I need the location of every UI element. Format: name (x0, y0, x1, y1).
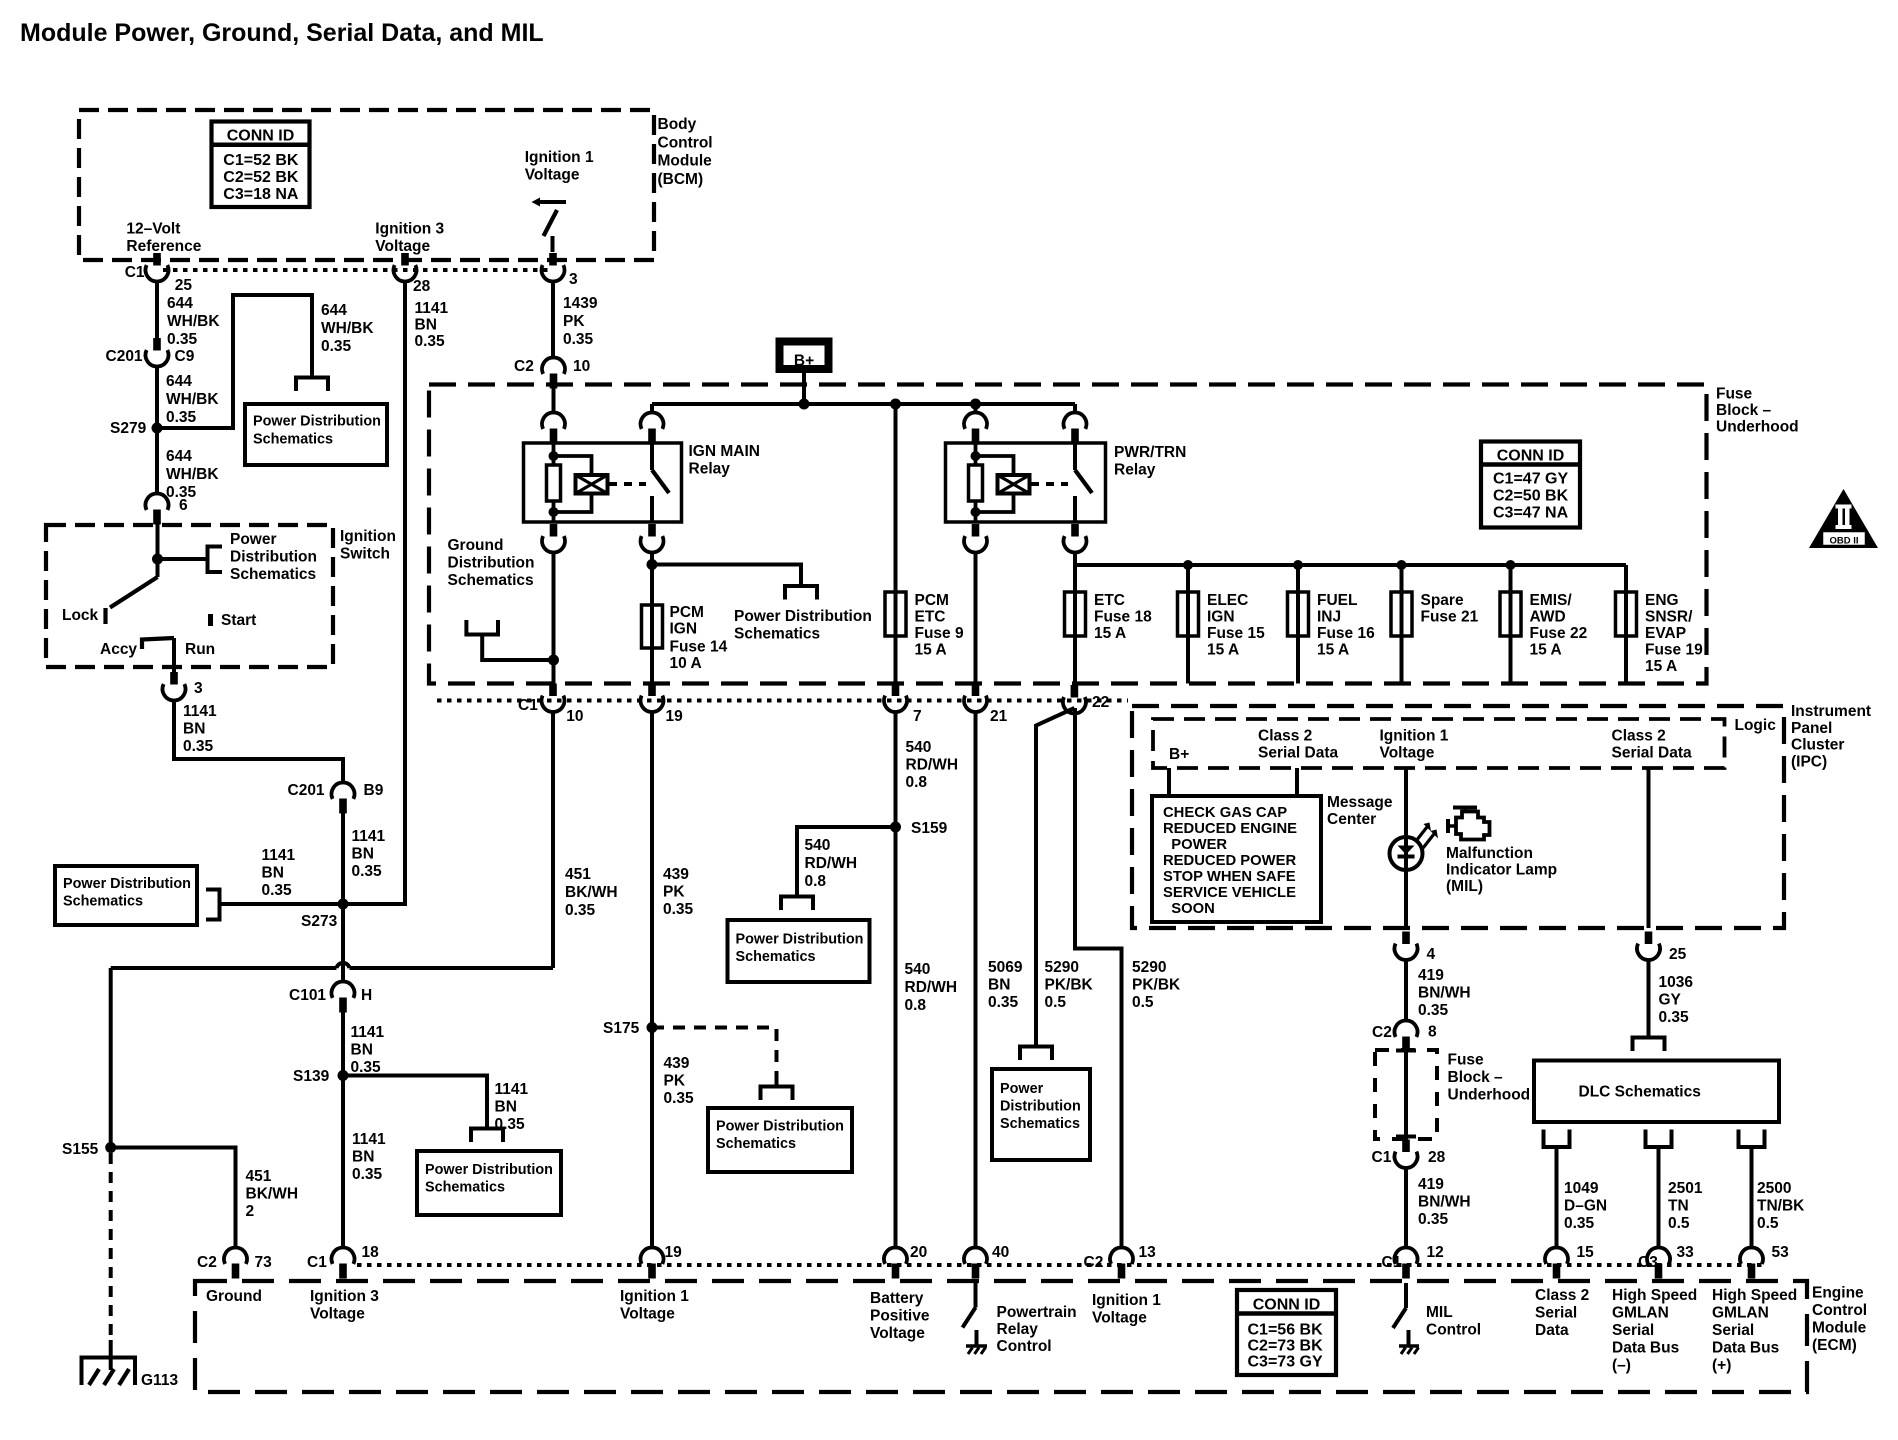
svg-text:Relay: Relay (997, 1321, 1039, 1338)
svg-text:Fuse 14: Fuse 14 (670, 639, 728, 656)
svg-text:BN/WH: BN/WH (1418, 1194, 1471, 1211)
svg-text:0.35: 0.35 (1659, 1009, 1690, 1026)
svg-text:ETC: ETC (1094, 592, 1125, 609)
svg-text:Fuse 15: Fuse 15 (1207, 625, 1265, 642)
bracket DLC output 3 (1739, 1130, 1765, 1148)
module box Engine Control Module (ECM) (195, 1281, 1807, 1392)
bracket to Power Distribution Schematics (296, 378, 328, 392)
svg-text:Center: Center (1327, 811, 1376, 828)
svg-text:Voltage: Voltage (1092, 1310, 1147, 1327)
svg-text:Battery: Battery (870, 1290, 924, 1307)
svg-text:Accy: Accy (100, 641, 137, 658)
table CONN ID (ECM) (1237, 1290, 1336, 1375)
svg-text:0.35: 0.35 (351, 1059, 382, 1076)
svg-text:28: 28 (413, 278, 431, 295)
svg-text:0.35: 0.35 (166, 409, 197, 426)
svg-text:PWR/TRN: PWR/TRN (1114, 444, 1186, 461)
connector C101 cavity H (332, 981, 355, 997)
svg-text:0.35: 0.35 (415, 333, 446, 350)
svg-text:Cluster: Cluster (1791, 737, 1844, 754)
svg-text:Power: Power (230, 531, 277, 548)
connector C2 pin 8 (underhood fuse block) (1394, 1020, 1417, 1036)
node S175 (647, 1022, 658, 1033)
wire dashed from S155 to G113 (109, 1153, 113, 1340)
svg-text:15: 15 (1577, 1244, 1595, 1261)
svg-text:0.35: 0.35 (1564, 1215, 1595, 1232)
svg-text:S279: S279 (110, 420, 147, 437)
svg-text:CHECK GAS CAP: CHECK GAS CAP (1163, 805, 1287, 821)
wire fuse drop Spare Fuse 21 (1400, 565, 1404, 684)
symbol OBD II (1809, 489, 1878, 548)
wire 2501 TN to ECM 33 (1657, 1147, 1661, 1248)
connector C2 pin 73 (ECM) (224, 1247, 247, 1263)
svg-text:1141: 1141 (183, 703, 217, 720)
svg-text:Fuse 9: Fuse 9 (915, 625, 964, 642)
wire 419 BN/WH to C2-8 (1404, 960, 1408, 1021)
svg-text:D–GN: D–GN (1564, 1198, 1607, 1215)
wire branch to power distribution (fuse block) (652, 565, 801, 587)
svg-text:1036: 1036 (1659, 974, 1694, 991)
svg-text:20: 20 (910, 1244, 927, 1261)
svg-text:Malfunction: Malfunction (1446, 845, 1533, 862)
wire 419 BN/WH to ECM C1-12 (1404, 1168, 1408, 1248)
svg-text:High Speed: High Speed (1612, 1287, 1697, 1304)
svg-text:PK: PK (563, 313, 585, 330)
svg-text:Class 2: Class 2 (1258, 728, 1312, 745)
svg-text:0.8: 0.8 (905, 997, 927, 1014)
svg-text:Fuse: Fuse (1448, 1052, 1485, 1069)
svg-text:Switch: Switch (340, 546, 390, 563)
link dashed relay actuator PWR/TRN (1031, 482, 1068, 486)
svg-text:BN: BN (415, 317, 437, 334)
svg-text:Block –: Block – (1448, 1069, 1504, 1086)
wire branch S279 to power distribution reference (157, 295, 312, 428)
svg-text:15 A: 15 A (1530, 642, 1562, 659)
svg-text:POWER: POWER (1163, 837, 1227, 853)
svg-text:WH/BK: WH/BK (321, 320, 374, 337)
connector C2 pin 10 (fuse block) (542, 357, 565, 373)
wire 1141 BN from S139 to ECM C1-18 (341, 1076, 345, 1249)
svg-text:Schematics: Schematics (1000, 1116, 1080, 1132)
wire stem to bracket (S175 branch) (775, 1076, 779, 1087)
svg-text:451: 451 (565, 866, 591, 883)
svg-text:Power Distribution: Power Distribution (734, 608, 872, 625)
connector IGN MAIN relay switch pin (top) (641, 412, 664, 428)
svg-text:Panel: Panel (1791, 720, 1832, 737)
svg-text:Fuse: Fuse (1716, 386, 1753, 403)
connector 20 (ECM) (884, 1247, 907, 1263)
connector 15 (ECM) (1545, 1247, 1568, 1263)
svg-text:REDUCED POWER: REDUCED POWER (1163, 853, 1296, 869)
svg-text:Ignition 1: Ignition 1 (525, 149, 594, 166)
svg-text:Schematics: Schematics (716, 1136, 796, 1152)
svg-text:0.35: 0.35 (183, 738, 214, 755)
svg-text:(BCM): (BCM) (658, 171, 704, 188)
svg-text:Schematics: Schematics (734, 626, 820, 643)
svg-text:BN: BN (183, 721, 205, 738)
svg-text:Data: Data (1535, 1322, 1569, 1339)
node coil bottom junction (549, 507, 559, 517)
connector 7 (fuse block bottom) (892, 684, 900, 697)
svg-text:C2=52 BK: C2=52 BK (223, 169, 299, 186)
svg-text:RD/WH: RD/WH (905, 979, 958, 996)
svg-text:C9: C9 (175, 348, 195, 365)
svg-text:BK/WH: BK/WH (246, 1186, 299, 1203)
connector 3 (ignition switch output) (170, 672, 178, 685)
fuse ETC Fuse 18 15 A (1065, 592, 1086, 636)
connector 21 (fuse block bottom) (972, 684, 980, 697)
svg-text:S273: S273 (301, 913, 338, 930)
svg-text:BN: BN (352, 846, 374, 863)
svg-text:Ground: Ground (206, 1288, 262, 1305)
svg-text:WH/BK: WH/BK (166, 391, 219, 408)
module box Body Control Module (BCM) (79, 110, 654, 260)
wire rail corner to PWR/TRN switch pin (1073, 404, 1077, 413)
wire PWR coil loop (976, 456, 1014, 475)
svg-text:Block –: Block – (1716, 402, 1772, 419)
svg-text:1141: 1141 (262, 847, 296, 864)
svg-text:Spare: Spare (1421, 592, 1464, 609)
connector 3 (BCM ignition 1 voltage) (549, 253, 557, 266)
node ignition switch junction (152, 554, 163, 565)
svg-text:Power: Power (1000, 1081, 1044, 1097)
switch blade (ignition key) (156, 559, 160, 577)
svg-text:C101: C101 (289, 987, 326, 1004)
logic box (IPC) (1153, 719, 1725, 768)
svg-text:PK/BK: PK/BK (1132, 977, 1181, 994)
svg-text:BN/WH: BN/WH (1418, 985, 1471, 1002)
svg-text:419: 419 (1418, 967, 1444, 984)
fuse Spare Fuse 21 (1391, 592, 1412, 636)
svg-text:OBD II: OBD II (1829, 536, 1858, 547)
node PWR coil top junction (971, 451, 981, 461)
svg-text:Power Distribution: Power Distribution (253, 414, 381, 430)
svg-text:C1: C1 (307, 1254, 327, 1271)
svg-text:40: 40 (992, 1244, 1009, 1261)
wire 644 WH/BK from C201 to S279 (155, 366, 159, 428)
node PWR coil bottom junction (971, 507, 981, 517)
svg-text:0.35: 0.35 (321, 338, 352, 355)
svg-text:12: 12 (1427, 1244, 1444, 1261)
fuse ELEC IGN Fuse 15 15 A (1178, 592, 1199, 636)
wire 451 BK/WH down to S155 (109, 968, 113, 1148)
node S155 (105, 1142, 116, 1153)
wire 439 PK from 19 to ECM 19 (650, 712, 654, 1249)
svg-text:53: 53 (1772, 1244, 1790, 1261)
wire dotted harness line (BCM connector row) (163, 268, 550, 272)
svg-text:Engine: Engine (1812, 1285, 1864, 1302)
svg-text:ENG: ENG (1645, 592, 1679, 609)
reference box DLC Schematics (1534, 1061, 1779, 1123)
wire 1141 BN from connector 3 to C201 B9 (174, 700, 343, 783)
node junction PCM IGN branch (647, 559, 658, 570)
svg-text:419: 419 (1418, 1176, 1444, 1193)
svg-text:0.8: 0.8 (805, 873, 827, 890)
bracket DLC output 2 (1646, 1130, 1672, 1148)
svg-text:PK: PK (663, 884, 685, 901)
svg-text:Ignition 1: Ignition 1 (1092, 1292, 1161, 1309)
svg-text:10: 10 (573, 358, 590, 375)
wire 451 BK/WH 2 from S155 to ECM C2-73 (111, 1148, 236, 1249)
module box Fuse Block - Underhood (inline) (1375, 1050, 1437, 1139)
svg-text:Start: Start (221, 612, 256, 629)
reference box Power Distribution Schematics (5290) (992, 1069, 1090, 1160)
svg-text:C201: C201 (288, 782, 325, 799)
svg-text:1141: 1141 (352, 828, 386, 845)
wire B+ stub (802, 373, 806, 404)
svg-text:(–): (–) (1612, 1357, 1631, 1374)
svg-text:Relay: Relay (1114, 462, 1156, 479)
svg-text:15 A: 15 A (1207, 642, 1239, 659)
svg-text:C1: C1 (125, 264, 145, 281)
svg-text:GMLAN: GMLAN (1712, 1305, 1769, 1322)
svg-text:2501: 2501 (1668, 1180, 1703, 1197)
svg-text:Positive: Positive (870, 1308, 930, 1325)
fuse PCM ETC Fuse 9 15 A (885, 592, 906, 636)
svg-text:Schematics: Schematics (63, 894, 143, 910)
svg-text:Voltage: Voltage (375, 238, 430, 255)
svg-text:Ignition 3: Ignition 3 (375, 221, 444, 238)
svg-text:C3=47 NA: C3=47 NA (1493, 505, 1569, 522)
wire fuse drop ENG SNSR/EVAP Fuse 19 15 A (1624, 565, 1628, 684)
connector C3 pin 33 (ECM) (1647, 1247, 1670, 1263)
svg-text:18: 18 (362, 1244, 380, 1261)
fuse FUEL INJ Fuse 16 15 A (1288, 592, 1309, 636)
wire 5069 BN from 21 to ECM 40 (974, 712, 978, 1249)
ground G113 (109, 1340, 113, 1370)
svg-text:CONN ID: CONN ID (1253, 1297, 1321, 1314)
svg-text:Fuse 22: Fuse 22 (1530, 625, 1588, 642)
connector C1 pin 28 (underhood fuse block) (1402, 1140, 1410, 1153)
wire fuse drop EMIS/AWD Fuse 22 15 A (1509, 565, 1513, 684)
svg-text:Body: Body (658, 116, 697, 133)
svg-text:644: 644 (321, 302, 347, 319)
svg-text:BN: BN (262, 865, 284, 882)
svg-text:Data Bus: Data Bus (1712, 1340, 1779, 1357)
svg-text:Power Distribution: Power Distribution (425, 1162, 553, 1178)
wire branch S159 to power distribution (797, 827, 896, 897)
reference box Power Distribution Schematics (S159) (728, 920, 870, 982)
power feed B+ (780, 342, 829, 370)
svg-text:BN: BN (352, 1149, 374, 1166)
contact Accy-Run (142, 638, 174, 649)
connector C1 pin 10 (fuse block bottom) (549, 684, 557, 697)
wire class 2 right to IPC pin 25 (1647, 768, 1651, 928)
svg-text:SOON: SOON (1163, 901, 1215, 917)
svg-text:Logic: Logic (1735, 717, 1777, 734)
svg-text:RD/WH: RD/WH (805, 855, 858, 872)
svg-text:Ignition: Ignition (340, 528, 396, 545)
wire 5290 PK/BK from 22 to power distribution (1036, 708, 1074, 1047)
wire dotted harness line (ECM row) (357, 1263, 1763, 1267)
svg-text:Underhood: Underhood (1716, 419, 1799, 436)
svg-text:25: 25 (1669, 946, 1687, 963)
wire ground distribution branch (482, 635, 553, 661)
bracket DLC input (1633, 1038, 1665, 1052)
connector IGN MAIN switch pin (bottom) (648, 524, 656, 537)
lamp MIL (LED symbol) (1390, 837, 1423, 870)
svg-text:19: 19 (665, 1244, 683, 1261)
bracket power distribution (S175) (761, 1087, 793, 1101)
wire PWR/TRN coil out to connector 21 (974, 552, 978, 684)
connector C1 pin 18 (ECM) (332, 1247, 355, 1263)
node S279 (152, 423, 163, 434)
coil symbol (crossed box) PWR/TRN (998, 475, 1030, 494)
svg-text:GY: GY (1659, 992, 1682, 1009)
svg-text:Fuse 21: Fuse 21 (1421, 609, 1479, 626)
svg-text:0.35: 0.35 (1418, 1211, 1449, 1228)
wire 1141 BN from B9 to S273 (341, 806, 345, 904)
svg-text:Class 2: Class 2 (1612, 728, 1666, 745)
bracket power distribution (fuse block) (785, 586, 817, 600)
svg-text:0.5: 0.5 (1045, 994, 1067, 1011)
svg-text:7: 7 (913, 708, 922, 725)
svg-text:28: 28 (1428, 1149, 1446, 1166)
wire IGN MAIN coil out to C1-10 (552, 552, 556, 684)
svg-text:C3=18 NA: C3=18 NA (223, 186, 299, 203)
module box Ignition Switch (46, 525, 333, 667)
svg-text:C3: C3 (1638, 1254, 1658, 1271)
terminal tick top (1396, 1049, 1416, 1053)
switch MIL driver (ECM) (1404, 1283, 1408, 1308)
wire MIL lamp to IPC pin 4 (1404, 870, 1408, 928)
svg-text:644: 644 (167, 295, 193, 312)
svg-text:Serial: Serial (1712, 1322, 1754, 1339)
svg-text:S155: S155 (62, 1141, 99, 1158)
svg-text:15 A: 15 A (1645, 658, 1677, 675)
svg-text:4: 4 (1427, 946, 1436, 963)
svg-text:Voltage: Voltage (1380, 745, 1435, 762)
svg-text:439: 439 (664, 1055, 690, 1072)
svg-text:Power Distribution: Power Distribution (736, 932, 864, 948)
wire rail to PWR/TRN coil pin (974, 404, 978, 413)
wire PWR/TRN switch out to fuse rail (1073, 552, 1077, 565)
svg-text:Power Distribution: Power Distribution (716, 1119, 844, 1135)
svg-text:2: 2 (246, 1203, 255, 1220)
svg-text:Distribution: Distribution (230, 549, 317, 566)
svg-text:GMLAN: GMLAN (1612, 1305, 1669, 1322)
connector 19 (ECM) (641, 1247, 664, 1263)
svg-text:0.8: 0.8 (906, 774, 928, 791)
svg-text:Fuse 16: Fuse 16 (1317, 625, 1375, 642)
svg-text:(ECM): (ECM) (1812, 1337, 1857, 1354)
node B+ rail junction (799, 399, 810, 410)
connector IGN MAIN relay coil pin (top) (542, 412, 565, 428)
wire IGN MAIN coil leg (552, 443, 556, 522)
svg-text:0.35: 0.35 (664, 1090, 695, 1107)
switch IGN MAIN contacts (650, 443, 654, 470)
svg-text:1049: 1049 (1564, 1180, 1599, 1197)
connector 25 (IPC) (1645, 932, 1653, 945)
svg-text:C201: C201 (106, 348, 143, 365)
wire 451 BK/WH horizontal with hop over 1141 wire (111, 966, 337, 970)
svg-text:RD/WH: RD/WH (906, 757, 959, 774)
svg-text:5290: 5290 (1045, 959, 1079, 976)
bracket to Power Distribution Schematics (ignition switch) (208, 547, 223, 573)
wire fuse drop FUEL INJ Fuse 16 15 A (1296, 565, 1300, 684)
svg-text:Voltage: Voltage (310, 1306, 365, 1323)
svg-text:Run: Run (185, 641, 215, 658)
svg-text:25: 25 (175, 277, 193, 294)
svg-text:IGN: IGN (670, 621, 698, 638)
svg-text:C1=56 BK: C1=56 BK (1248, 1322, 1324, 1339)
svg-text:Voltage: Voltage (620, 1306, 675, 1323)
wire 1439 PK into fuse block (552, 386, 556, 413)
svg-text:Ignition 1: Ignition 1 (1380, 728, 1449, 745)
svg-text:BK/WH: BK/WH (565, 884, 618, 901)
svg-text:PCM: PCM (915, 592, 949, 609)
node S273 (338, 899, 349, 910)
svg-text:SERVICE VEHICLE: SERVICE VEHICLE (1163, 885, 1296, 901)
fuse PCM IGN Fuse 14 10 A (642, 605, 663, 648)
svg-text:0.5: 0.5 (1132, 994, 1154, 1011)
svg-text:22: 22 (1092, 694, 1109, 711)
svg-text:TN/BK: TN/BK (1757, 1198, 1805, 1215)
light rays (MIL) (1416, 827, 1427, 841)
svg-text:MIL: MIL (1426, 1304, 1453, 1321)
svg-text:540: 540 (905, 961, 931, 978)
svg-text:IGN MAIN: IGN MAIN (689, 443, 760, 460)
svg-text:IGN: IGN (1207, 609, 1235, 626)
svg-text:1141: 1141 (415, 300, 449, 317)
wire 5290 PK/BK from 22 to ECM C2-13 (1075, 708, 1122, 1248)
svg-text:5069: 5069 (988, 959, 1023, 976)
svg-text:S159: S159 (911, 820, 948, 837)
svg-text:Control: Control (658, 134, 713, 151)
svg-text:Instrument: Instrument (1791, 703, 1871, 720)
svg-text:C2: C2 (1084, 1254, 1104, 1271)
svg-text:B+: B+ (1169, 746, 1189, 763)
svg-text:5290: 5290 (1132, 959, 1166, 976)
wire 1141 BN from C101 to S139 (341, 1005, 345, 1076)
svg-text:439: 439 (663, 866, 689, 883)
svg-text:PK/BK: PK/BK (1045, 977, 1094, 994)
wire 1141 BN from S273 to C101 (341, 904, 345, 982)
wire 644 WH/BK from S279 to connector 6 (155, 428, 159, 494)
svg-text:C2: C2 (197, 1254, 217, 1271)
connector PWR/TRN coil pin (bottom) (972, 524, 980, 537)
svg-text:Module: Module (1812, 1320, 1867, 1337)
svg-text:12–Volt: 12–Volt (126, 221, 180, 238)
reference box Power Distribution Schematics (S139) (417, 1151, 561, 1215)
svg-text:FUEL: FUEL (1317, 592, 1357, 609)
svg-text:Data Bus: Data Bus (1612, 1340, 1679, 1357)
connector C1 pin 12 (ECM) (1394, 1247, 1417, 1263)
svg-text:Distribution: Distribution (1000, 1099, 1081, 1115)
svg-text:Schematics: Schematics (736, 949, 816, 965)
wire B+ to message center (1167, 768, 1171, 796)
svg-text:Class 2: Class 2 (1535, 1287, 1589, 1304)
svg-text:Serial Data: Serial Data (1612, 745, 1693, 762)
svg-text:Module: Module (658, 153, 713, 170)
svg-text:21: 21 (990, 708, 1008, 725)
svg-text:Ignition 3: Ignition 3 (310, 1288, 379, 1305)
wire ignition 1 to MIL lamp (1404, 768, 1408, 838)
svg-text:10 A: 10 A (670, 655, 702, 672)
svg-text:STOP WHEN SAFE: STOP WHEN SAFE (1163, 869, 1296, 885)
node rail dot ELEC IGN (1183, 560, 1193, 570)
bracket Ground Distribution Schematics (466, 620, 498, 635)
svg-text:SNSR/: SNSR/ (1645, 609, 1693, 626)
svg-text:C2: C2 (1372, 1024, 1392, 1041)
wire rail corner to IGN MAIN switch pin (650, 404, 654, 413)
module box Fuse Block - Underhood (429, 385, 1707, 684)
svg-text:1141: 1141 (495, 1081, 529, 1098)
svg-text:644: 644 (166, 448, 192, 465)
fuse EMIS/AWD Fuse 22 15 A (1500, 592, 1521, 636)
svg-text:Lock: Lock (62, 607, 99, 624)
svg-text:Underhood: Underhood (1448, 1087, 1531, 1104)
